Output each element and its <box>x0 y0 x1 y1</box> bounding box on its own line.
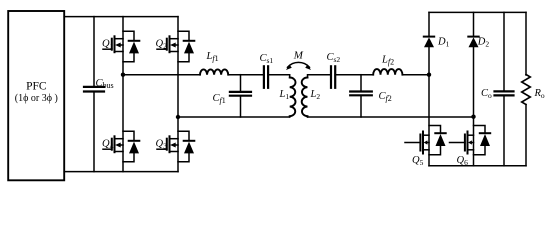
wire top DC rail (right) <box>429 11 526 13</box>
svg-text:D2: D2 <box>477 37 490 49</box>
wire Lf1 to Cs1 <box>228 74 264 76</box>
wire Cs2 to Lf2 <box>335 74 373 76</box>
PFC block <box>8 11 64 180</box>
wire bridge leg 2 <box>177 17 179 172</box>
wire Lf2 to rectifier <box>402 74 429 76</box>
mutual inductance arrow M <box>286 62 311 70</box>
capacitor Co <box>495 12 514 165</box>
svg-text:Q5: Q5 <box>412 155 424 167</box>
node bridge leg2 midpoint <box>176 115 180 119</box>
wire Cs1 to L1 <box>268 75 290 78</box>
svg-text:Cs2: Cs2 <box>327 52 341 64</box>
capacitor Cf2 <box>350 75 372 117</box>
svg-text:L2: L2 <box>310 89 321 101</box>
capacitor Cbus <box>84 17 104 172</box>
wire bottom DC rail (right) <box>429 165 526 167</box>
svg-text:Cbus: Cbus <box>96 78 114 90</box>
wire L2 top lead <box>308 75 332 78</box>
wire tank bottom rail (primary) <box>178 116 290 118</box>
capacitor Cs2 <box>331 66 335 88</box>
node bridge leg1 midpoint <box>121 73 125 77</box>
diode D2 <box>468 12 478 165</box>
node rectifier left midpoint <box>427 73 431 77</box>
svg-text:(1ϕ or 3ϕ ): (1ϕ or 3ϕ ) <box>15 93 58 104</box>
transistor Q2 <box>157 31 194 62</box>
svg-text:Cf1: Cf1 <box>213 93 226 105</box>
svg-text:Lf1: Lf1 <box>206 51 219 63</box>
wire tank bottom rail (secondary) <box>308 116 474 118</box>
transistor Q6 <box>450 126 491 155</box>
svg-text:Q2: Q2 <box>156 38 168 50</box>
resistor Ro <box>522 12 531 165</box>
svg-text:Lf2: Lf2 <box>381 55 394 67</box>
diode D1 <box>424 12 434 165</box>
transistor Q3 <box>157 131 194 162</box>
inductor L2 <box>302 78 308 117</box>
svg-text:Co: Co <box>481 88 492 100</box>
svg-text:L1: L1 <box>279 89 290 101</box>
inductor Lf2 <box>373 69 402 75</box>
node rectifier right midpoint <box>471 115 475 119</box>
inductor Lf1 <box>200 69 228 74</box>
svg-text:Ro: Ro <box>534 88 545 100</box>
transistor Q1 <box>103 31 139 62</box>
svg-text:PFC: PFC <box>26 81 47 93</box>
svg-text:Cs1: Cs1 <box>260 53 274 65</box>
capacitor Cs1 <box>264 66 268 88</box>
svg-text:Q6: Q6 <box>457 155 469 167</box>
wire L2 bottom lead <box>307 115 309 118</box>
wire bridge leg 1 <box>122 17 124 172</box>
transistor Q5 <box>405 126 446 155</box>
svg-text:M: M <box>293 50 304 62</box>
wire top DC rail (left) <box>64 16 178 18</box>
transistor Q4 <box>103 131 139 162</box>
wire tank top rail (primary) <box>123 74 200 76</box>
wire bottom DC rail (left) <box>64 171 178 173</box>
inductor L1 <box>290 78 296 117</box>
capacitor Cf1 <box>230 75 251 117</box>
svg-text:Cf2: Cf2 <box>379 91 392 103</box>
svg-text:D1: D1 <box>437 37 450 49</box>
wire L1 bottom lead <box>289 115 291 118</box>
svg-text:Q3: Q3 <box>156 138 168 150</box>
